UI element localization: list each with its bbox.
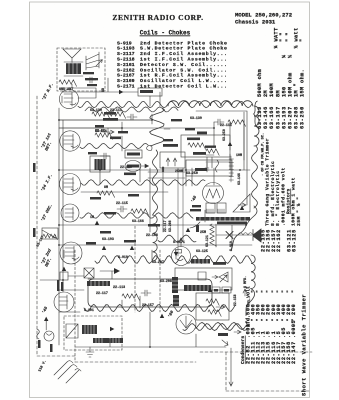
rounded shield box xyxy=(88,279,212,307)
coupling capacitor C4 xyxy=(100,153,110,159)
label blob toroid xyxy=(124,173,136,176)
extra label blobs midband xyxy=(86,119,195,245)
oscillator shield meander xyxy=(150,108,165,146)
dark tick xyxy=(196,225,199,232)
vertical rails xyxy=(59,108,244,345)
wires antenna to V1 xyxy=(62,84,96,98)
tube V1 '27 R.F. xyxy=(59,89,78,108)
wavy shield top of det box xyxy=(158,235,196,242)
wavy W8 xyxy=(183,324,246,331)
volume control R10 xyxy=(42,228,58,240)
AC plug xyxy=(54,361,81,383)
hatched bar right of V9 xyxy=(191,259,210,264)
capacitor C3 xyxy=(214,119,224,125)
shield meander lower xyxy=(152,150,157,261)
label box above xyxy=(125,150,142,158)
band switch xyxy=(86,52,99,70)
wavy bus W3 xyxy=(81,180,205,185)
resistor parts table (rotated, right margin top) xyxy=(257,27,306,129)
vertical winding bar xyxy=(172,277,178,293)
antenna coupling coil xyxy=(64,62,83,76)
power transformer primary winding xyxy=(82,325,97,334)
coils-chokes parts list xyxy=(117,40,228,89)
antenna shield dashed box xyxy=(57,48,105,91)
filter box xyxy=(196,293,229,320)
tuning trimmer xyxy=(96,60,102,66)
tube V2 '27 1st Det. xyxy=(60,131,80,151)
wavy bus W1a xyxy=(78,102,252,108)
crystal box xyxy=(84,268,94,278)
power switch xyxy=(66,324,78,338)
dashed vertical shield partitions xyxy=(75,226,160,362)
label S-2118 blob xyxy=(163,144,178,147)
tube V8 '80 rect xyxy=(176,314,196,334)
pot arrow xyxy=(103,128,114,136)
outer dashed shield border bottom xyxy=(37,352,312,391)
flow arrows set xyxy=(95,90,244,318)
power transformer filament winding xyxy=(107,338,123,343)
grid resistor R1 xyxy=(92,112,110,119)
capacitor C8 xyxy=(141,290,151,296)
resistor R9 xyxy=(131,209,149,216)
label blob S xyxy=(218,333,228,336)
label blob y152 xyxy=(193,152,206,155)
wavy bus W2 xyxy=(80,144,148,149)
tone control vertical xyxy=(210,224,217,246)
antenna symbol xyxy=(63,49,81,63)
shield verticals xyxy=(178,168,183,256)
wavy bus W5 xyxy=(95,256,252,264)
choke bar in box xyxy=(87,281,110,286)
resistor R4 xyxy=(228,120,246,127)
label S-2161 blobs xyxy=(83,72,98,86)
X mark xyxy=(226,232,233,239)
resistor R12 xyxy=(122,294,140,301)
vertical winding bar 2 xyxy=(173,295,179,306)
top small box xyxy=(138,88,162,96)
small box with arrow left xyxy=(60,267,68,280)
arrow to right xyxy=(142,164,149,168)
model number block xyxy=(235,12,293,26)
arrow above lamp xyxy=(44,317,48,321)
power transformer secondary winding xyxy=(93,338,107,343)
wire speaker row xyxy=(216,224,252,247)
grid capacitor C6 xyxy=(117,206,127,212)
pilot lamp xyxy=(44,331,54,341)
ground symbol main xyxy=(86,347,94,357)
horizontal rails xyxy=(40,92,252,312)
output transformer rects xyxy=(206,203,226,213)
cone triangle xyxy=(233,194,250,212)
wavy box bottom W6 xyxy=(84,304,235,311)
grid box with arrows xyxy=(160,152,185,172)
hatched bars in box xyxy=(184,285,211,291)
shield box B1 xyxy=(181,135,230,157)
spring squiggle left edge xyxy=(37,329,40,339)
coil curl W2 end xyxy=(147,145,153,150)
label blob 22 xyxy=(197,132,207,135)
arrow down lead xyxy=(222,340,233,386)
capacitor in antenna box xyxy=(86,77,96,83)
hook curve xyxy=(190,222,200,228)
arrow right of transformer xyxy=(110,327,114,331)
big arrow xyxy=(100,270,114,272)
small rect pair in box xyxy=(198,272,206,280)
scattered part labels xyxy=(84,116,242,312)
wire rail y120 xyxy=(59,114,152,124)
tube V7 '45 output xyxy=(203,183,224,204)
trimmer/electrolytic parts table (rotated, right margin middle) xyxy=(261,133,302,252)
driver triangle in box xyxy=(219,272,228,282)
brace for resistor group xyxy=(254,101,258,127)
winding strip 2 xyxy=(217,222,247,225)
rotated label blobs left xyxy=(33,163,64,352)
tube V3 '24 I.F. xyxy=(60,174,81,195)
trimmer in box xyxy=(220,275,227,282)
wire y172 y178 xyxy=(148,168,185,232)
tube V6 '45 xyxy=(54,292,74,312)
top right box corner xyxy=(196,111,247,205)
label blobs upper mid xyxy=(103,112,121,139)
inner box around output parts xyxy=(175,268,232,290)
label blob in box xyxy=(213,262,226,265)
bypass capacitor C1 xyxy=(127,114,137,120)
power transformer dashed box xyxy=(64,316,122,350)
wavy border bottom right xyxy=(196,323,246,330)
wire rail y128 xyxy=(59,122,122,133)
tube V5 '27 2nd Det. xyxy=(60,242,82,264)
shield box B2 xyxy=(186,160,232,176)
tube V4 '27 Osc. xyxy=(61,204,79,222)
label blobs left of tube xyxy=(190,205,201,211)
long winding strip xyxy=(196,217,250,221)
cathode resistor R8 xyxy=(97,191,115,198)
speaker cone xyxy=(253,229,261,242)
wavy border S-curve xyxy=(231,206,257,251)
condenser parts table (rotated, right margin bottom) xyxy=(240,286,308,396)
wavy bus W1b xyxy=(85,107,178,112)
terminal blocks xyxy=(212,287,231,293)
wavy bus W4 xyxy=(80,213,193,219)
wavy border right lower xyxy=(246,255,255,316)
tube V9 2nd det output xyxy=(172,238,191,266)
speaker voice coil loops xyxy=(238,233,253,235)
arrow right y332 xyxy=(234,330,241,334)
top feed wire xyxy=(62,78,150,106)
wavy border right smooth xyxy=(252,146,258,208)
arrow up right xyxy=(243,289,247,296)
toroid coil xyxy=(125,161,141,172)
wavy schematic border right xyxy=(254,106,259,146)
wire stub x214 xyxy=(214,112,244,160)
vertical comb coil xyxy=(229,156,234,182)
wavy schematic border top xyxy=(168,101,253,106)
oscillator coil box xyxy=(90,156,110,172)
resistor R2 xyxy=(108,112,126,119)
resistor in antenna box xyxy=(59,80,77,87)
grid resistor R5 xyxy=(95,133,113,140)
wire bottom bus xyxy=(75,312,226,347)
outer dashed shield border left xyxy=(36,96,38,356)
